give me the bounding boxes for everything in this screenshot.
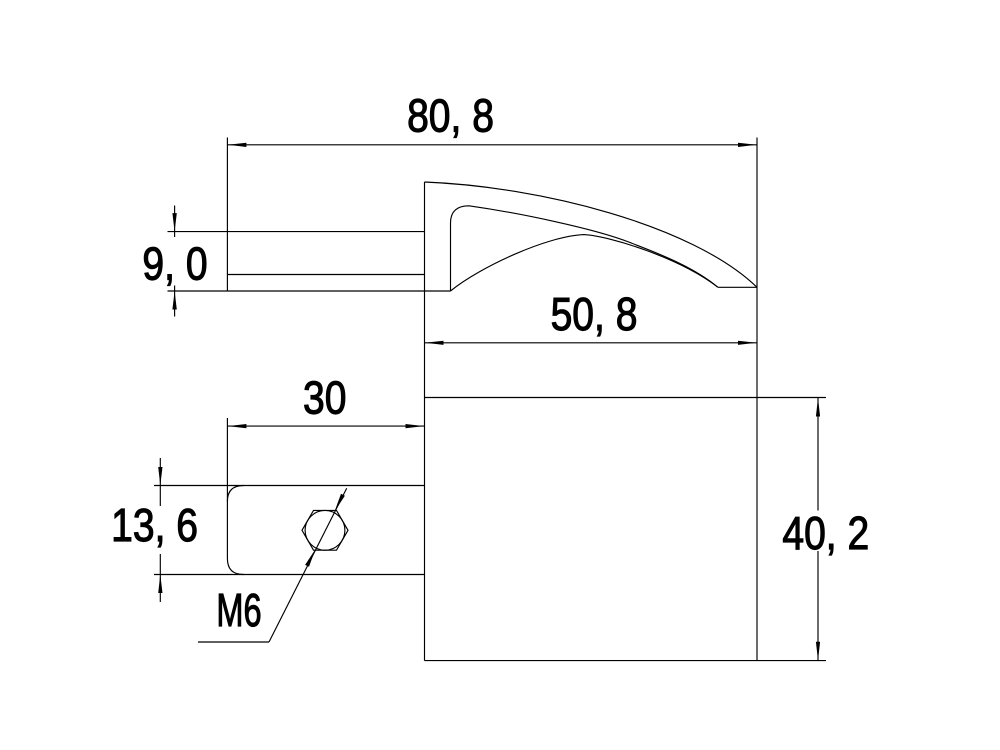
svg-text:50, 8: 50, 8 — [551, 289, 638, 341]
svg-text:80, 8: 80, 8 — [407, 90, 494, 142]
svg-text:40, 2: 40, 2 — [782, 508, 869, 560]
svg-text:9, 0: 9, 0 — [142, 238, 207, 290]
svg-text:M6: M6 — [216, 584, 261, 636]
svg-text:30: 30 — [303, 372, 346, 424]
svg-text:13, 6: 13, 6 — [111, 500, 198, 552]
